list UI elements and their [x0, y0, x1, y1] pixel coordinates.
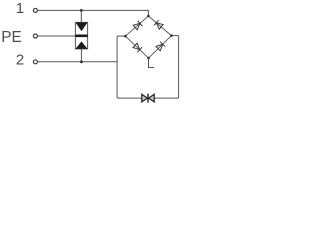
node left corner: [124, 35, 127, 38]
svg-text:1: 1: [16, 0, 24, 17]
wire TVS top: [80, 10, 82, 22]
bridge edge lower-right: [149, 36, 172, 59]
wire bottom-corner stub: [149, 58, 155, 67]
wire left stub: [117, 35, 125, 37]
bridge edge lower-left: [125, 36, 148, 58]
junction dot line1/TVS: [80, 9, 83, 12]
bridge edge upper-left: [125, 16, 148, 36]
wire right stub: [171, 35, 178, 37]
wire line 2: [38, 61, 118, 63]
arrester GT bowtie right triangle: [149, 94, 155, 102]
terminal 1: [33, 8, 37, 12]
wire right vertical: [178, 36, 180, 99]
terminal PE: [33, 34, 37, 38]
node right corner: [170, 34, 173, 37]
bridge edge upper-right: [148, 16, 171, 36]
TVS lower triangle: [75, 41, 87, 49]
suppressor TVS box: [75, 22, 87, 49]
wire PE: [38, 35, 76, 37]
diode D1 upper-left: [133, 21, 142, 30]
node top corner: [147, 15, 150, 18]
TVS upper triangle: [75, 22, 87, 31]
svg-text:PE: PE: [1, 29, 22, 46]
arrester GT bowtie left triangle: [142, 94, 148, 102]
wire TVS bottom: [80, 49, 82, 62]
diode D4 lower-right: [156, 42, 165, 51]
arrester GT center bar: [147, 94, 148, 103]
wire bottom rail: [117, 97, 179, 99]
TVS center bar: [75, 35, 87, 38]
wire line 1: [38, 10, 149, 16]
diode D3 lower-left: [133, 43, 142, 52]
junction dot line2/TVS: [80, 60, 83, 63]
svg-text:2: 2: [16, 52, 24, 69]
node bottom corner: [147, 57, 150, 60]
terminal 2: [33, 60, 37, 64]
wire left vertical: [116, 36, 118, 98]
diode D2 upper-right: [154, 20, 163, 29]
